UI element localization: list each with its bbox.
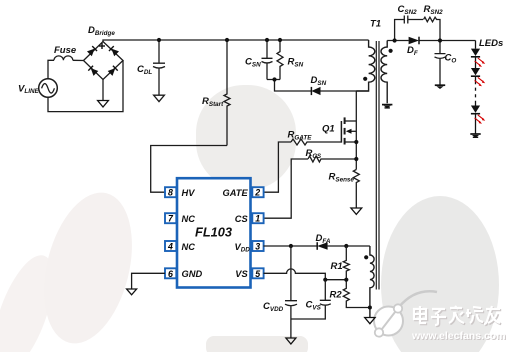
- LED D1: [471, 49, 480, 56]
- ground RSense: [351, 208, 362, 214]
- watermark blob middle: [196, 85, 296, 190]
- watermark petal left small: [0, 248, 66, 352]
- svg-text:R2: R2: [330, 290, 343, 301]
- VS junction dots: [323, 278, 327, 282]
- svg-text:NC: NC: [182, 242, 196, 252]
- svg-text:1: 1: [255, 214, 260, 224]
- snubber bottom wire: [267, 80, 311, 92]
- wire vline top to fuse: [48, 60, 54, 78]
- capacitor CSN2: [404, 16, 423, 24]
- VDD junction dot: [289, 244, 293, 248]
- ground CDL: [154, 95, 165, 101]
- svg-text:5: 5: [255, 269, 260, 279]
- svg-text:GND: GND: [182, 269, 203, 279]
- pin 2 box: [252, 187, 263, 197]
- transformer T1 primary winding: [356, 40, 375, 91]
- svg-text:CS: CS: [235, 214, 249, 224]
- wire GATE pin to RGATE: [264, 142, 292, 192]
- IC FL103 body: [177, 178, 251, 287]
- bridge diode 4: [108, 66, 118, 76]
- MOSFET Q1: [341, 91, 356, 170]
- watermark chinese text 电子发烧友: [415, 307, 501, 326]
- svg-text:HV: HV: [182, 188, 196, 198]
- transformer core: [375, 41, 377, 290]
- svg-text:LEDs: LEDs: [479, 38, 503, 49]
- resistor RCS: [308, 156, 356, 162]
- source junction dot: [354, 140, 358, 144]
- wire VDD pin: [264, 245, 318, 247]
- ground aux: [365, 318, 375, 324]
- bridge ground stem: [102, 80, 104, 101]
- watermark blob bottom: [206, 336, 308, 352]
- watermark blob right: [381, 196, 499, 352]
- Q1 arrow: [346, 129, 352, 134]
- svg-text:GATE: GATE: [223, 188, 249, 198]
- bridge diode 2: [109, 46, 119, 56]
- watermark logo circle: [374, 291, 437, 336]
- svg-text:VS: VS: [235, 269, 248, 279]
- AC source VLINE: [39, 79, 58, 98]
- pin 8 box: [165, 187, 176, 197]
- wire DFA to aux: [328, 245, 370, 247]
- diode DFA: [317, 242, 327, 250]
- junction dots top rail: [157, 38, 161, 42]
- capacitor CVS: [291, 280, 331, 319]
- wire GND pin: [132, 273, 165, 289]
- resistor RGATE: [291, 139, 342, 145]
- wire DSN to primary: [321, 90, 369, 92]
- fuse F: [54, 56, 73, 60]
- wire VS pin with hop: [264, 269, 347, 280]
- aux winding: [370, 246, 374, 318]
- svg-text:3: 3: [255, 242, 260, 252]
- output rail: [387, 40, 475, 42]
- LED string: [475, 41, 477, 135]
- resistor RStart: [224, 40, 230, 146]
- resistor R1: [343, 246, 349, 280]
- wire HV path: [151, 146, 227, 193]
- ground secondary (bar style): [382, 105, 392, 109]
- LED D2: [471, 68, 480, 75]
- secondary phasing dot: [389, 49, 393, 53]
- ground CVDD: [286, 338, 296, 344]
- pin 5 box: [252, 268, 263, 278]
- wire CS pin to RCS: [264, 159, 309, 218]
- svg-text:4: 4: [167, 242, 173, 252]
- resistor RSN2: [424, 17, 441, 40]
- svg-text:Q1: Q1: [322, 124, 335, 135]
- capacitor CVDD: [285, 246, 297, 338]
- wire CSN2 branch: [395, 20, 405, 41]
- resistor R2: [343, 280, 370, 308]
- svg-text:T1: T1: [370, 19, 381, 30]
- wire fuse to bridge: [73, 59, 84, 61]
- bridge rectifier DBridge diamond: [84, 42, 124, 80]
- diode DSN: [311, 87, 320, 95]
- LED D2 arrows: [478, 77, 485, 83]
- svg-text:FL103: FL103: [195, 225, 232, 240]
- svg-text:8: 8: [168, 188, 173, 198]
- ground CO (bar style): [435, 85, 445, 89]
- svg-text:NC: NC: [182, 214, 196, 224]
- resistor RSN: [277, 40, 283, 80]
- pin 3 box: [252, 241, 263, 251]
- resistor RSense: [353, 170, 359, 209]
- svg-text:6: 6: [168, 269, 173, 279]
- svg-text:R1: R1: [331, 261, 343, 272]
- primary phasing dot: [363, 77, 367, 81]
- svg-text:www.elecfans.com: www.elecfans.com: [411, 330, 506, 342]
- LED D1 arrows: [478, 58, 485, 64]
- ground GND pin: [127, 289, 137, 295]
- LED D3 arrows: [478, 115, 485, 121]
- capacitor CO: [435, 41, 446, 86]
- CS junction dot: [354, 157, 358, 161]
- R1 top junction dot: [344, 244, 348, 248]
- wire vline bottom loop: [48, 61, 123, 112]
- diode DF: [409, 37, 419, 45]
- pin 4 box: [165, 241, 176, 251]
- CDL capacitor: [153, 40, 165, 95]
- ground LEDs (bar style): [470, 134, 480, 138]
- plus sign: [99, 43, 105, 49]
- capacitor CSN: [262, 40, 273, 80]
- pin 7 box: [165, 213, 176, 223]
- svg-text:2: 2: [254, 188, 260, 198]
- pin 6 box: [165, 268, 176, 278]
- transformer T1 secondary winding: [381, 41, 387, 104]
- watermark petal left large: [30, 183, 147, 352]
- svg-text:Fuse: Fuse: [54, 45, 77, 56]
- pin 1 box: [252, 213, 263, 223]
- bridge diode 1: [87, 46, 97, 56]
- aux bottom junction dot: [368, 306, 372, 310]
- bridge diode 3: [88, 66, 98, 76]
- top rail: [103, 40, 369, 42]
- aux phasing dot: [364, 255, 368, 259]
- ground bridge: [98, 101, 109, 108]
- LED D3: [471, 106, 480, 113]
